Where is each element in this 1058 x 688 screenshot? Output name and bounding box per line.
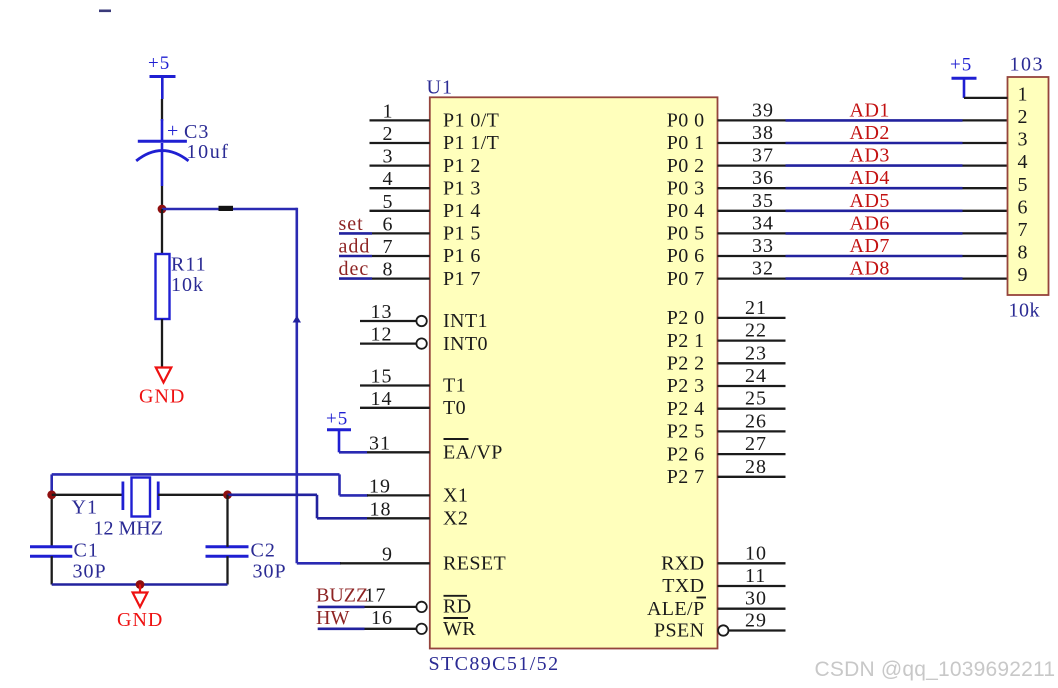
svg-text:dec: dec <box>339 258 370 280</box>
svg-text:P1 5: P1 5 <box>443 223 481 245</box>
svg-text:35: 35 <box>752 190 774 212</box>
svg-text:P1 0/T: P1 0/T <box>443 110 499 132</box>
wire <box>161 209 163 254</box>
svg-text:P2 4: P2 4 <box>667 398 705 420</box>
capacitor C1 30P <box>30 545 72 548</box>
svg-text:27: 27 <box>745 433 767 455</box>
pin 38 P01 <box>718 142 786 144</box>
svg-text:CSDN @qq_1039692211: CSDN @qq_1039692211 <box>815 658 1056 681</box>
resistor R11 10k <box>156 254 170 319</box>
svg-text:P1 1/T: P1 1/T <box>443 132 499 154</box>
connector pin wire <box>963 142 1008 144</box>
svg-text:AD6: AD6 <box>850 212 890 234</box>
pin 11 TXD <box>718 585 786 587</box>
svg-text:3: 3 <box>383 146 394 168</box>
svg-text:29: 29 <box>745 610 767 632</box>
svg-text:P1 3: P1 3 <box>443 177 481 199</box>
wire <box>318 606 365 609</box>
svg-text:AD8: AD8 <box>850 258 890 280</box>
svg-text:add: add <box>339 236 371 258</box>
svg-text:7: 7 <box>383 236 394 258</box>
svg-text:RXD: RXD <box>661 553 704 575</box>
wire <box>316 495 319 519</box>
pin 30 ALE/P <box>718 608 786 610</box>
svg-text:34: 34 <box>752 212 774 234</box>
wire net AD2 <box>786 142 963 145</box>
svg-text:U1: U1 <box>427 77 453 99</box>
svg-text:P0 4: P0 4 <box>667 200 705 222</box>
svg-text:PSEN: PSEN <box>654 620 705 642</box>
svg-text:AD2: AD2 <box>850 122 890 144</box>
pin 19 X1 <box>367 494 430 496</box>
svg-text:17: 17 <box>365 585 387 607</box>
pin 24 P23 <box>718 385 786 387</box>
wire <box>339 232 372 235</box>
wire <box>161 119 164 141</box>
svg-text:19: 19 <box>369 475 391 497</box>
connector pin wire <box>963 119 1008 121</box>
pin 21 P20 <box>718 317 786 319</box>
svg-text:2: 2 <box>1018 106 1029 128</box>
wire net AD7 <box>786 255 963 258</box>
svg-text:23: 23 <box>745 342 767 364</box>
svg-text:P0 0: P0 0 <box>667 110 705 132</box>
wire <box>297 562 341 565</box>
svg-text:5: 5 <box>1018 174 1029 196</box>
stray mark <box>99 10 111 13</box>
pin 5 P14 <box>370 210 430 212</box>
svg-text:16: 16 <box>371 607 393 629</box>
ground GND (crystal) <box>139 585 141 593</box>
svg-text:T1: T1 <box>443 375 466 397</box>
svg-text:P2 6: P2 6 <box>667 443 705 465</box>
svg-text:P1 4: P1 4 <box>443 200 481 222</box>
svg-text:P0 2: P0 2 <box>667 155 705 177</box>
svg-text:RD: RD <box>443 596 472 618</box>
pin 26 P25 <box>718 430 786 432</box>
svg-text:18: 18 <box>370 498 392 520</box>
wire <box>158 494 227 496</box>
wire <box>162 208 297 211</box>
connector pin wire <box>963 210 1008 212</box>
wire (dark segment on net) <box>219 206 234 211</box>
svg-text:4: 4 <box>1018 151 1029 173</box>
svg-text:X1: X1 <box>443 485 468 507</box>
svg-text:5: 5 <box>383 191 394 213</box>
WR overline <box>444 617 469 619</box>
connector pin wire <box>963 277 1008 279</box>
pin 3 P12 <box>370 164 430 166</box>
pin 10 RXD <box>718 562 786 564</box>
junction (C3/R11/RESET net) <box>158 205 167 214</box>
wire <box>339 255 372 258</box>
pin 18 X2 <box>367 517 430 519</box>
pin 36 P03 <box>718 187 786 189</box>
svg-text:3: 3 <box>1018 129 1029 151</box>
svg-text:25: 25 <box>745 388 767 410</box>
wire net AD3 <box>786 164 963 167</box>
wire <box>318 627 365 630</box>
wire <box>340 494 369 497</box>
svg-text:9: 9 <box>382 543 393 565</box>
svg-text:28: 28 <box>745 456 767 478</box>
svg-text:TXD: TXD <box>662 575 704 597</box>
pin 13 INT1 <box>360 320 416 322</box>
svg-text:INT0: INT0 <box>443 333 488 355</box>
pin 29 PSEN <box>718 625 728 635</box>
svg-text:38: 38 <box>752 122 774 144</box>
svg-text:HW: HW <box>316 607 349 629</box>
pin 23 P22 <box>718 362 786 364</box>
svg-text:37: 37 <box>752 145 774 167</box>
svg-text:P1 2: P1 2 <box>443 155 481 177</box>
wire <box>338 474 341 495</box>
pin 34 P05 <box>718 232 786 234</box>
pin 28 P27 <box>718 476 786 478</box>
svg-text:P0 7: P0 7 <box>667 268 705 290</box>
junction (GND tap) <box>136 580 145 589</box>
svg-text:7: 7 <box>1018 219 1029 241</box>
junction (crystal right) <box>223 490 232 499</box>
svg-text:14: 14 <box>371 388 393 410</box>
svg-text:103: 103 <box>1010 54 1045 76</box>
pin 9 RESET <box>340 562 430 564</box>
svg-text:32: 32 <box>752 258 774 280</box>
svg-text:T0: T0 <box>443 397 466 419</box>
pin 31 EA/VP <box>367 451 430 453</box>
svg-text:31: 31 <box>369 432 391 454</box>
connector pin wire <box>963 255 1008 257</box>
svg-text:21: 21 <box>745 297 767 319</box>
wire net AD4 <box>786 187 963 190</box>
svg-text:39: 39 <box>752 99 774 121</box>
pin 1 P10/T <box>370 119 430 121</box>
svg-text:X2: X2 <box>443 508 468 530</box>
wire (bottom rail) <box>52 583 228 586</box>
svg-text:26: 26 <box>745 410 767 432</box>
svg-text:P2 1: P2 1 <box>667 330 705 352</box>
wire <box>339 277 372 280</box>
wire junction arrow <box>293 316 301 323</box>
wire <box>161 99 163 121</box>
wire (left leg) <box>50 474 53 496</box>
capacitor C2 30P <box>206 545 249 548</box>
wire <box>51 495 53 547</box>
pin 25 P24 <box>718 408 786 410</box>
svg-text:8: 8 <box>1018 242 1029 264</box>
svg-text:15: 15 <box>371 366 393 388</box>
svg-text:P2 7: P2 7 <box>667 466 705 488</box>
svg-text:11: 11 <box>745 565 766 587</box>
wire net AD1 <box>786 119 963 122</box>
pin 33 P06 <box>718 255 786 257</box>
wire <box>226 556 228 584</box>
svg-text:AD5: AD5 <box>850 190 890 212</box>
svg-text:P0 6: P0 6 <box>667 245 705 267</box>
pin 39 P00 <box>718 119 786 121</box>
connector pin wire <box>963 187 1008 189</box>
wire (to X2) <box>228 493 318 496</box>
ALE/P overline <box>697 597 707 599</box>
wire <box>295 208 298 564</box>
svg-text:2: 2 <box>383 123 394 145</box>
svg-text:AD7: AD7 <box>850 235 890 257</box>
wire net AD8 <box>786 277 963 280</box>
svg-text:EA/VP: EA/VP <box>443 442 503 464</box>
wire <box>51 556 53 584</box>
RD overline <box>444 595 468 597</box>
wire (top rail to X1) <box>52 473 340 476</box>
EA overline <box>444 438 469 440</box>
pin 15 T1 <box>360 384 430 386</box>
svg-text:6: 6 <box>1018 196 1029 218</box>
svg-text:STC89C51/52: STC89C51/52 <box>429 653 560 675</box>
wire net AD6 <box>786 232 963 235</box>
connector pin wire <box>963 164 1008 166</box>
svg-text:24: 24 <box>745 365 767 387</box>
connector pin wire <box>963 232 1008 234</box>
capacitor C3 (10uf electrolytic) <box>138 140 187 143</box>
svg-text:10k: 10k <box>1009 300 1041 322</box>
svg-text:30: 30 <box>745 588 767 610</box>
wire <box>317 517 367 520</box>
wire <box>339 451 367 454</box>
svg-text:P2 5: P2 5 <box>667 421 705 443</box>
wire net AD5 <box>786 210 963 213</box>
ground GND (R11) <box>156 368 172 383</box>
svg-text:36: 36 <box>752 167 774 189</box>
svg-text:12: 12 <box>371 324 393 346</box>
pin 35 P04 <box>718 210 786 212</box>
svg-text:22: 22 <box>745 320 767 342</box>
pin 4 P13 <box>370 187 430 189</box>
svg-text:AD3: AD3 <box>850 145 890 167</box>
svg-text:P0 1: P0 1 <box>667 132 705 154</box>
svg-text:4: 4 <box>383 168 394 190</box>
pin 12 INT0 <box>360 342 416 344</box>
svg-text:set: set <box>339 213 364 235</box>
svg-text:6: 6 <box>383 213 394 235</box>
svg-text:ALE/P: ALE/P <box>647 598 705 620</box>
svg-text:WR: WR <box>443 618 476 640</box>
svg-text:33: 33 <box>752 235 774 257</box>
connector pin 1 wire <box>964 97 1008 99</box>
svg-text:9: 9 <box>1018 264 1029 286</box>
svg-text:P2 2: P2 2 <box>667 353 705 375</box>
svg-text:P1 7: P1 7 <box>443 268 481 290</box>
svg-text:+5: +5 <box>950 55 972 76</box>
connector/resistor-network 103 body <box>1008 77 1049 295</box>
IC U1 STC89C51/52 body <box>430 97 718 648</box>
svg-text:AD4: AD4 <box>850 167 890 189</box>
pin 2 P11/T <box>370 142 430 144</box>
svg-text:8: 8 <box>383 259 394 281</box>
svg-text:13: 13 <box>371 301 393 323</box>
pin 22 P21 <box>718 339 786 341</box>
pin 37 P02 <box>718 164 786 166</box>
pin 27 P26 <box>718 453 786 455</box>
svg-text:10: 10 <box>745 542 767 564</box>
pin 14 T0 <box>360 407 430 409</box>
crystal Y1 12MHZ <box>122 482 125 511</box>
pin 32 P07 <box>718 277 786 279</box>
junction (crystal left) <box>47 490 56 499</box>
svg-text:P0 5: P0 5 <box>667 223 705 245</box>
wire <box>161 319 163 368</box>
svg-text:1: 1 <box>383 100 394 122</box>
svg-text:INT1: INT1 <box>443 310 488 332</box>
wire <box>226 495 228 547</box>
svg-text:P2 0: P2 0 <box>667 307 705 329</box>
svg-text:AD1: AD1 <box>850 99 890 121</box>
wire <box>161 186 163 206</box>
svg-text:1: 1 <box>1018 84 1029 106</box>
wire <box>52 494 123 496</box>
wire <box>161 143 164 186</box>
svg-text:P1 6: P1 6 <box>443 245 481 267</box>
svg-text:BUZZ: BUZZ <box>316 585 368 607</box>
svg-text:P0 3: P0 3 <box>667 177 705 199</box>
svg-text:P2 3: P2 3 <box>667 375 705 397</box>
svg-text:RESET: RESET <box>443 553 506 575</box>
